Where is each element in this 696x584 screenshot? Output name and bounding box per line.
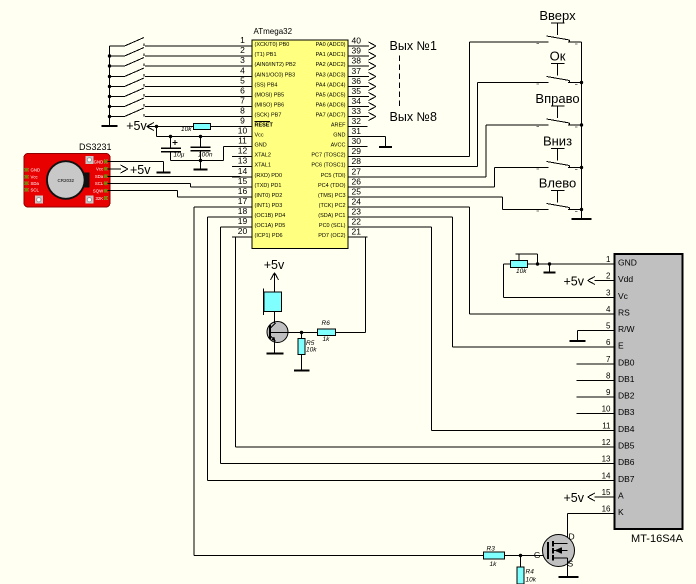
svg-text:PC6 (TOSC1): PC6 (TOSC1) <box>311 163 345 169</box>
svg-text:8: 8 <box>606 372 611 381</box>
svg-text:(SS) PB4: (SS) PB4 <box>255 83 278 89</box>
svg-text:4: 4 <box>606 305 611 314</box>
svg-text:10: 10 <box>602 405 611 414</box>
svg-text:10k: 10k <box>306 347 317 354</box>
svg-text:16: 16 <box>602 505 611 514</box>
svg-text:DB3: DB3 <box>618 407 635 417</box>
svg-text:PA3 (ADC3): PA3 (ADC3) <box>316 73 346 79</box>
svg-text:32: 32 <box>352 116 362 126</box>
svg-text:DB7: DB7 <box>618 474 635 484</box>
svg-text:13: 13 <box>602 455 611 464</box>
svg-text:PA2 (ADC2): PA2 (ADC2) <box>316 62 346 68</box>
svg-text:S: S <box>568 559 574 569</box>
svg-text:(INT0) PD2: (INT0) PD2 <box>255 193 283 199</box>
svg-text:Вправо: Вправо <box>535 91 579 106</box>
svg-text:24: 24 <box>352 197 362 207</box>
svg-text:PA4 (ADC4): PA4 (ADC4) <box>316 83 346 89</box>
svg-text:100n: 100n <box>198 152 213 159</box>
svg-text:29: 29 <box>352 146 362 156</box>
svg-text:ATmega32: ATmega32 <box>254 27 293 36</box>
svg-text:27: 27 <box>352 167 362 177</box>
svg-text:7: 7 <box>606 355 611 364</box>
svg-text:RESET: RESET <box>255 123 274 129</box>
svg-text:3: 3 <box>606 289 611 298</box>
svg-text:(INT1) PD3: (INT1) PD3 <box>255 203 283 209</box>
svg-text:14: 14 <box>238 166 248 176</box>
svg-text:Vcc: Vcc <box>255 133 264 139</box>
svg-text:A: A <box>618 491 624 501</box>
svg-text:D: D <box>569 532 575 542</box>
svg-text:PA5 (ADC5): PA5 (ADC5) <box>316 93 346 99</box>
svg-text:35: 35 <box>352 86 362 96</box>
svg-text:9: 9 <box>606 388 611 397</box>
svg-text:PD7 (OC2): PD7 (OC2) <box>318 233 345 239</box>
svg-text:39: 39 <box>352 46 362 56</box>
svg-text:Вверх: Вверх <box>539 8 576 23</box>
svg-text:11: 11 <box>602 422 611 431</box>
svg-text:DB2: DB2 <box>618 391 635 401</box>
svg-text:(T1) PB1: (T1) PB1 <box>255 52 277 58</box>
svg-text:PC0 (SCL): PC0 (SCL) <box>319 223 346 229</box>
svg-text:PC5 (TDI): PC5 (TDI) <box>321 173 346 179</box>
svg-text:Ок: Ок <box>550 49 566 64</box>
svg-text:25: 25 <box>352 187 362 197</box>
svg-text:14: 14 <box>602 472 611 481</box>
svg-text:Влево: Влево <box>539 176 576 191</box>
svg-text:32K: 32K <box>96 196 104 201</box>
svg-text:12: 12 <box>602 438 611 447</box>
svg-text:DB4: DB4 <box>618 424 635 434</box>
svg-text:(TXD) PD1: (TXD) PD1 <box>255 183 282 189</box>
svg-text:(TCK) PC2: (TCK) PC2 <box>319 203 346 209</box>
svg-text:SCL: SCL <box>95 181 104 186</box>
svg-text:Vdd: Vdd <box>618 274 633 284</box>
svg-text:(SCK) PB7: (SCK) PB7 <box>255 113 282 119</box>
svg-text:28: 28 <box>352 156 362 166</box>
svg-text:E: E <box>618 341 624 351</box>
svg-text:10k: 10k <box>526 577 537 584</box>
svg-text:1: 1 <box>240 35 245 45</box>
svg-text:Vc: Vc <box>618 291 629 301</box>
svg-text:1: 1 <box>606 255 611 264</box>
svg-text:SDa: SDa <box>31 181 40 186</box>
svg-text:22: 22 <box>352 217 362 227</box>
svg-text:Vcc: Vcc <box>31 175 39 180</box>
svg-text:PC4 (TDO): PC4 (TDO) <box>318 183 346 189</box>
svg-text:SCL: SCL <box>31 188 40 193</box>
svg-text:RS: RS <box>618 308 630 318</box>
svg-text:(AIN1/OC0) PB3: (AIN1/OC0) PB3 <box>255 73 296 79</box>
svg-text:CR2032: CR2032 <box>58 178 75 183</box>
svg-text:(AIN0/INT2) PB2: (AIN0/INT2) PB2 <box>255 62 296 68</box>
svg-text:DB0: DB0 <box>618 358 635 368</box>
svg-text:33: 33 <box>352 106 362 116</box>
svg-text:Вниз: Вниз <box>543 134 572 149</box>
svg-text:+5v: +5v <box>264 258 285 272</box>
svg-text:5: 5 <box>606 322 611 331</box>
svg-text:(SDA) PC1: (SDA) PC1 <box>318 213 345 219</box>
svg-text:(OC1A) PD5: (OC1A) PD5 <box>255 223 286 229</box>
svg-text:(MOSI) PB5: (MOSI) PB5 <box>255 93 285 99</box>
svg-text:R6: R6 <box>322 320 331 327</box>
svg-text:23: 23 <box>352 207 362 217</box>
svg-text:1k: 1k <box>490 561 498 568</box>
svg-text:R4: R4 <box>526 569 535 576</box>
svg-text:DB6: DB6 <box>618 457 635 467</box>
svg-text:30: 30 <box>352 136 362 146</box>
svg-text:PC7 (TOSC2): PC7 (TOSC2) <box>311 153 345 159</box>
svg-text:DS3231: DS3231 <box>79 142 112 152</box>
svg-text:1k: 1k <box>323 336 331 343</box>
svg-text:SQW: SQW <box>93 189 104 194</box>
svg-text:PA6 (ADC6): PA6 (ADC6) <box>316 103 346 109</box>
svg-text:R/W: R/W <box>618 324 635 334</box>
svg-text:38: 38 <box>352 56 362 66</box>
svg-text:21: 21 <box>352 227 362 237</box>
svg-text:(TMS) PC3: (TMS) PC3 <box>318 193 346 199</box>
svg-text:Вых №8: Вых №8 <box>390 110 437 124</box>
svg-text:10µ: 10µ <box>174 152 185 159</box>
svg-text:(MISO) PB6: (MISO) PB6 <box>255 103 285 109</box>
svg-text:SDa: SDa <box>95 174 104 179</box>
svg-text:+5v: +5v <box>563 275 584 289</box>
svg-text:AVCC: AVCC <box>331 143 346 149</box>
svg-text:(RXD) PD0: (RXD) PD0 <box>255 173 283 179</box>
svg-text:37: 37 <box>352 66 362 76</box>
svg-text:G: G <box>534 550 541 560</box>
svg-text:2: 2 <box>606 272 611 281</box>
svg-text:XTAL2: XTAL2 <box>255 153 271 159</box>
svg-text:(OC1B) PD4: (OC1B) PD4 <box>255 213 286 219</box>
svg-text:34: 34 <box>352 96 362 106</box>
svg-text:GND: GND <box>255 143 267 149</box>
svg-text:Вых №1: Вых №1 <box>390 39 437 53</box>
svg-text:10k: 10k <box>181 126 192 133</box>
svg-text:(ICP1) PD6: (ICP1) PD6 <box>255 233 283 239</box>
svg-text:GND: GND <box>31 168 41 173</box>
svg-text:DB5: DB5 <box>618 441 635 451</box>
svg-text:AREF: AREF <box>331 123 346 129</box>
svg-text:13: 13 <box>238 156 248 166</box>
svg-text:PA7 (ADC7): PA7 (ADC7) <box>316 113 346 119</box>
svg-text:(XCK/T0) PB0: (XCK/T0) PB0 <box>255 42 290 48</box>
svg-text:GND: GND <box>333 133 345 139</box>
svg-text:+5v: +5v <box>563 491 584 505</box>
svg-text:PA0 (ADC0): PA0 (ADC0) <box>316 42 346 48</box>
svg-text:DB1: DB1 <box>618 374 635 384</box>
svg-text:15: 15 <box>602 488 611 497</box>
svg-text:MT-16S4A: MT-16S4A <box>631 533 684 545</box>
svg-text:K: K <box>618 507 624 517</box>
svg-text:PA1 (ADC1): PA1 (ADC1) <box>316 52 346 58</box>
svg-text:GND: GND <box>618 258 637 268</box>
svg-text:+5v: +5v <box>130 163 151 177</box>
svg-text:31: 31 <box>352 126 362 136</box>
svg-text:10k: 10k <box>516 268 527 275</box>
svg-text:+5v: +5v <box>126 119 147 133</box>
svg-text:4: 4 <box>240 66 245 76</box>
svg-text:R3: R3 <box>487 546 496 553</box>
svg-text:GND: GND <box>94 159 104 164</box>
svg-text:XTAL1: XTAL1 <box>255 163 271 169</box>
svg-text:6: 6 <box>606 338 611 347</box>
svg-text:36: 36 <box>352 76 362 86</box>
svg-text:Vcc: Vcc <box>96 167 104 172</box>
svg-text:40: 40 <box>352 36 362 46</box>
svg-text:26: 26 <box>352 177 362 187</box>
